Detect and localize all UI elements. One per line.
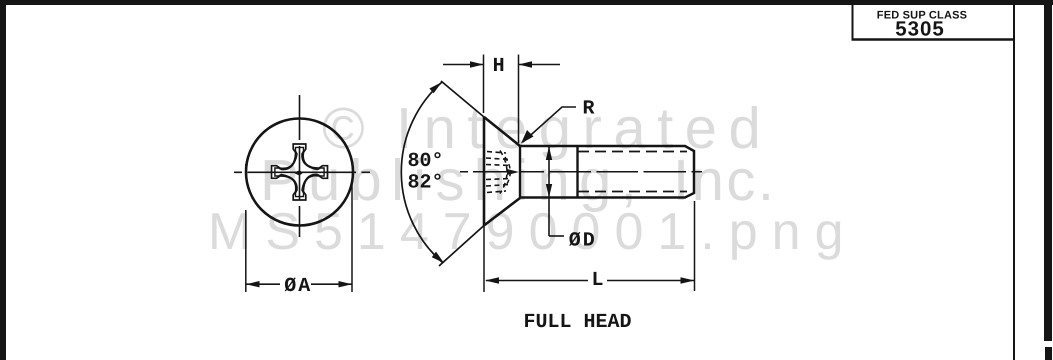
recess depth arrow on axis <box>507 169 519 175</box>
H left outside line <box>443 64 483 66</box>
hidden recess dashes row1 <box>487 152 506 154</box>
right border bar <box>1044 0 1052 341</box>
left border bar <box>0 0 6 360</box>
H right arrow <box>519 61 533 68</box>
L right extension line <box>694 201 696 291</box>
angle arc <box>401 82 443 263</box>
H right outside line <box>519 64 560 66</box>
svg-text:ØD: ØD <box>569 229 597 252</box>
svg-text:ØA: ØA <box>284 275 312 298</box>
L dimension line left <box>486 280 588 282</box>
dia A right arrow <box>339 281 353 287</box>
L left extension line <box>483 226 485 292</box>
dia D leader horizontal <box>549 235 564 237</box>
fed sup class box left line <box>852 5 854 40</box>
vertical centerline <box>299 95 301 237</box>
svg-text:FULL HEAD: FULL HEAD <box>524 311 632 334</box>
head left face <box>483 117 486 226</box>
svg-text:5305: 5305 <box>895 17 945 40</box>
angle arc top arrow <box>429 82 442 93</box>
shank top line <box>520 146 694 198</box>
phillips recess inner outline <box>275 147 324 196</box>
dia A left arrow <box>246 281 260 287</box>
head cone top edge <box>484 117 520 146</box>
dia A dimension line right <box>311 283 352 285</box>
right border bar lower piece <box>1045 347 1052 360</box>
head circle <box>246 119 353 226</box>
svg-text:H: H <box>493 55 505 78</box>
hidden recess dashes row5 <box>486 185 509 187</box>
dia D bottom arrow <box>546 184 552 198</box>
recess center diamond <box>294 170 304 175</box>
hidden recess dashes row4 <box>486 179 511 180</box>
title block column line <box>1013 5 1015 360</box>
top border bar <box>0 0 1053 5</box>
angle arc bottom arrow <box>432 252 444 263</box>
H extension line 2 <box>518 55 520 144</box>
phillips recess outer outline <box>272 144 328 200</box>
thread minor dia bottom dashed <box>578 191 687 193</box>
thread minor dia top dashed <box>578 151 687 153</box>
svg-text:R: R <box>583 97 595 120</box>
svg-text:MS514790001.png: MS514790001.png <box>208 203 858 261</box>
svg-text:82°: 82° <box>408 172 444 195</box>
fed sup class box bottom line <box>852 38 1016 41</box>
R leader line <box>523 107 576 142</box>
H extension line 1 <box>483 55 485 114</box>
hidden recess dashes row3 <box>486 165 511 166</box>
L dimension line right <box>607 280 694 282</box>
cone-shank junction line <box>519 146 521 198</box>
dia D dimension line <box>548 147 550 236</box>
axis centerline <box>460 171 702 173</box>
hidden recess arc dashed inner <box>505 157 510 187</box>
horizontal centerline <box>234 171 370 173</box>
L right arrow <box>681 277 695 283</box>
hidden recess arc dashed outer <box>500 151 507 194</box>
hidden recess dashes row6 <box>487 191 506 193</box>
H left arrow <box>470 61 484 68</box>
thread start line <box>576 146 578 198</box>
head cone bottom edge <box>484 198 520 226</box>
dia A left extension line <box>245 164 247 292</box>
dia A right extension line <box>351 180 353 292</box>
dia D top arrow <box>546 147 552 161</box>
dia A dimension line left <box>246 283 280 285</box>
lower angle line <box>439 226 484 267</box>
upper angle line <box>441 81 484 117</box>
L left arrow <box>485 277 499 283</box>
hidden recess dashes row2 <box>486 158 509 160</box>
svg-text:L: L <box>592 269 604 292</box>
R leader arrow <box>521 130 534 144</box>
svg-text:80°: 80° <box>408 150 444 173</box>
